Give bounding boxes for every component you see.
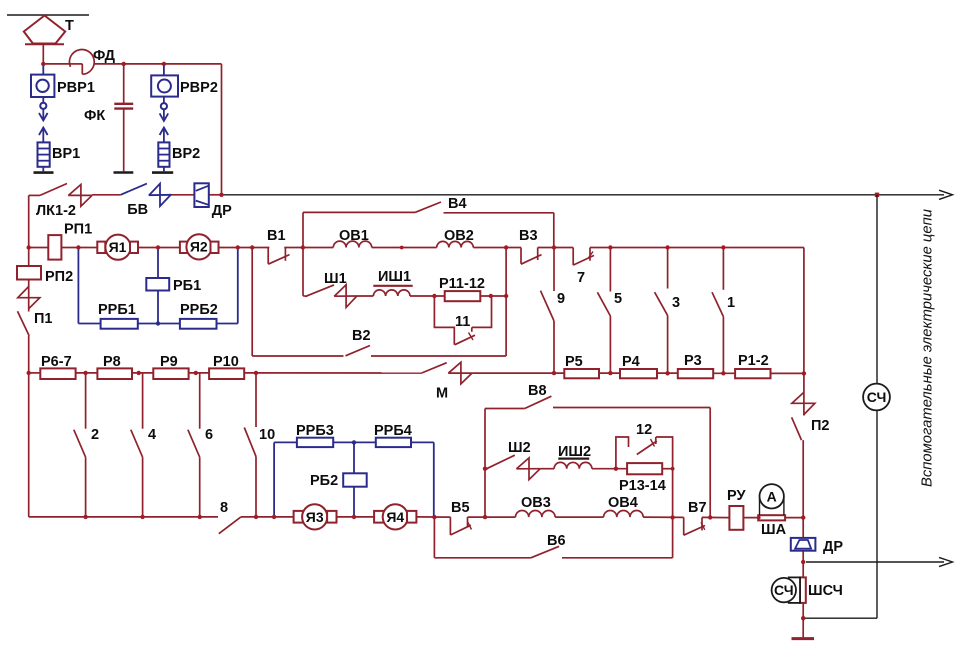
svg-text:6: 6 — [205, 427, 213, 443]
svg-text:12: 12 — [636, 422, 652, 438]
svg-text:М: М — [436, 386, 448, 402]
svg-text:РРБ4: РРБ4 — [374, 423, 412, 439]
svg-text:Р10: Р10 — [213, 354, 239, 370]
svg-text:Ш2: Ш2 — [508, 440, 531, 456]
svg-text:Ш1: Ш1 — [324, 271, 347, 287]
svg-text:1: 1 — [727, 295, 735, 311]
svg-text:ВР2: ВР2 — [172, 146, 200, 162]
svg-text:СЧ: СЧ — [867, 389, 887, 405]
svg-text:РРБ3: РРБ3 — [296, 423, 334, 439]
svg-text:ФД: ФД — [93, 48, 116, 64]
svg-text:ША: ША — [761, 522, 787, 538]
svg-text:Р8: Р8 — [103, 354, 121, 370]
svg-text:ФК: ФК — [84, 108, 105, 124]
svg-text:РВР1: РВР1 — [57, 80, 95, 96]
svg-text:Р4: Р4 — [622, 354, 640, 370]
svg-text:Я1: Я1 — [109, 239, 127, 255]
svg-text:В6: В6 — [547, 533, 566, 549]
svg-text:5: 5 — [614, 291, 622, 307]
svg-text:В2: В2 — [352, 328, 371, 344]
svg-text:ЛК1-2: ЛК1-2 — [36, 203, 76, 219]
svg-text:БВ: БВ — [127, 202, 148, 218]
svg-text:РУ: РУ — [727, 488, 746, 504]
svg-text:ШСЧ: ШСЧ — [808, 583, 843, 599]
svg-text:ОВ3: ОВ3 — [521, 495, 551, 511]
svg-text:Р9: Р9 — [160, 354, 178, 370]
svg-text:В3: В3 — [519, 228, 538, 244]
svg-text:В1: В1 — [267, 228, 286, 244]
svg-text:А: А — [767, 489, 777, 505]
svg-text:РП1: РП1 — [64, 222, 92, 238]
svg-text:ДР: ДР — [823, 539, 843, 555]
svg-text:7: 7 — [577, 270, 585, 286]
svg-text:8: 8 — [220, 500, 228, 516]
svg-text:ИШ2: ИШ2 — [558, 444, 591, 460]
svg-text:ОВ4: ОВ4 — [608, 495, 638, 511]
svg-text:СЧ: СЧ — [774, 582, 794, 598]
svg-text:В8: В8 — [528, 383, 547, 399]
svg-text:РРБ1: РРБ1 — [98, 302, 136, 318]
svg-text:П2: П2 — [811, 418, 830, 434]
svg-text:10: 10 — [259, 427, 275, 443]
svg-text:Р6-7: Р6-7 — [41, 354, 72, 370]
svg-text:Вспомогательные электрические: Вспомогательные электрические цепи — [920, 209, 936, 487]
svg-text:11: 11 — [455, 314, 470, 330]
svg-text:РБ1: РБ1 — [173, 278, 201, 294]
svg-text:3: 3 — [672, 295, 680, 311]
svg-text:4: 4 — [148, 427, 156, 443]
svg-text:ИШ1: ИШ1 — [378, 269, 411, 285]
svg-text:Т: Т — [65, 18, 74, 34]
svg-text:РРБ2: РРБ2 — [180, 302, 218, 318]
svg-text:В4: В4 — [448, 196, 467, 212]
svg-text:РВР2: РВР2 — [180, 80, 218, 96]
svg-text:ДР: ДР — [212, 203, 232, 219]
svg-text:РБ2: РБ2 — [310, 473, 338, 489]
svg-text:В7: В7 — [688, 500, 707, 516]
svg-text:Я3: Я3 — [306, 509, 324, 525]
svg-text:Р1-2: Р1-2 — [738, 353, 769, 369]
svg-text:РП2: РП2 — [45, 269, 73, 285]
svg-text:Р11-12: Р11-12 — [439, 276, 485, 292]
svg-text:2: 2 — [91, 427, 99, 443]
svg-text:ОВ1: ОВ1 — [339, 228, 369, 244]
svg-text:Я2: Я2 — [190, 239, 208, 255]
svg-text:9: 9 — [557, 291, 565, 307]
svg-text:Р5: Р5 — [565, 354, 583, 370]
svg-text:Р13-14: Р13-14 — [619, 478, 666, 494]
svg-text:В5: В5 — [451, 500, 470, 516]
svg-text:П1: П1 — [34, 311, 53, 327]
svg-text:ОВ2: ОВ2 — [444, 228, 474, 244]
svg-text:Я4: Я4 — [386, 509, 404, 525]
svg-text:ВР1: ВР1 — [52, 146, 80, 162]
svg-text:Р3: Р3 — [684, 353, 702, 369]
